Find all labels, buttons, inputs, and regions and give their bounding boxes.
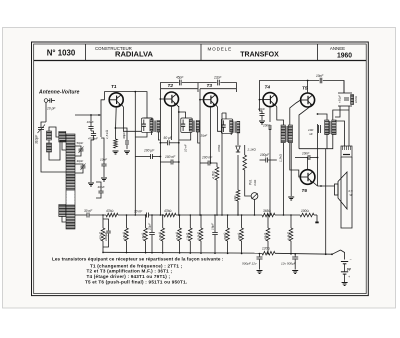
resistor 47k rail1	[106, 213, 118, 217]
capacitor 45pF	[179, 80, 181, 86]
wire T3 collector	[215, 104, 222, 131]
svg-text:−: −	[350, 258, 352, 262]
resistor 47kohm vertical x268	[263, 215, 269, 253]
wire T1 base down	[101, 100, 105, 137]
transistor T3	[204, 83, 218, 107]
resistor 4,7k mid	[215, 167, 219, 180]
svg-text:10pF: 10pF	[258, 107, 265, 111]
svg-text:30 nF: 30 nF	[134, 210, 143, 214]
svg-text:30 nF: 30 nF	[84, 209, 93, 213]
header separators	[85, 44, 87, 61]
svg-text:100 nF: 100 nF	[165, 155, 176, 159]
resistor 8,2kohm vertical x201	[196, 215, 202, 253]
svg-text:4,7kΩ: 4,7kΩ	[175, 231, 179, 240]
svg-text:Les transistors équipant ce ré: Les transistors équipant ce récepteur se…	[52, 257, 224, 262]
wire T4 collector	[275, 104, 284, 125]
svg-text:30pF: 30pF	[201, 134, 208, 138]
wire vertical bus D	[199, 89, 201, 215]
svg-text:T4: T4	[265, 85, 271, 91]
IFT2 core	[193, 121, 195, 133]
resistor 47kohm vertical x241.6	[237, 215, 243, 253]
svg-text:47kΩ: 47kΩ	[106, 209, 114, 213]
svg-text:Antenne-Voiture: Antenne-Voiture	[38, 90, 80, 96]
tuning capacitor 310pF	[38, 122, 47, 148]
transistor T6	[300, 170, 315, 194]
wire pot	[245, 192, 251, 196]
resistor 1,5k emitter	[114, 139, 118, 148]
svg-text:T6: T6	[302, 188, 308, 194]
capacitor 500uF x295.2	[292, 253, 298, 273]
resistor 100 rail3	[300, 213, 314, 217]
ground battery	[342, 282, 348, 284]
svg-text:Pot.: Pot.	[249, 179, 253, 185]
IF transformer IFT1	[142, 118, 154, 132]
wire output top rail	[260, 81, 345, 105]
svg-text:47kΩ: 47kΩ	[164, 209, 172, 213]
output transformer cap	[317, 125, 319, 133]
ferrite antenna bar	[66, 134, 75, 229]
svg-text:6,8kΩ: 6,8kΩ	[286, 231, 290, 240]
svg-text:TRANSFOX: TRANSFOX	[240, 50, 279, 59]
antenna terminal	[44, 98, 55, 122]
antenna winding lower	[59, 205, 66, 217]
svg-text:T1: T1	[111, 84, 117, 90]
oscillator coil L1	[47, 131, 52, 140]
wire IFT2 primary	[179, 112, 186, 118]
svg-text:T2 et T3 (amplification M.F.): T2 et T3 (amplification M.F.) : 36T1 ;	[87, 269, 173, 274]
resistor 47 kohm vertical x103	[98, 215, 104, 253]
transistor T2	[165, 83, 179, 106]
svg-text:100pF: 100pF	[104, 232, 108, 241]
wire T1 emitter	[115, 107, 118, 130]
IFT1 secondary	[157, 121, 160, 133]
wire vertical bus B	[159, 92, 161, 215]
svg-text:10nF: 10nF	[302, 152, 310, 156]
wire osc coils	[41, 127, 66, 172]
svg-text:30pF: 30pF	[122, 131, 126, 139]
capacitor 4700pF osc	[91, 133, 96, 135]
capacitor 30pF emitter	[125, 140, 127, 145]
capacitor 16uF vertical x215	[210, 215, 217, 253]
wire osc tap	[75, 114, 101, 116]
speaker transformer box	[335, 110, 352, 157]
driver transformer secondary	[288, 125, 292, 143]
wire vertical bus A	[134, 92, 136, 215]
svg-text:50pF: 50pF	[77, 141, 84, 145]
resistor 4,7kohm vertical x179.6	[175, 215, 181, 253]
IF transformer IFT2	[181, 118, 193, 133]
wire vertical bus F	[237, 133, 239, 145]
svg-text:+: +	[348, 275, 350, 279]
wire T6 left vertical	[290, 143, 292, 196]
wire T4 emitter	[269, 107, 271, 122]
svg-text:3 kΩ: 3 kΩ	[253, 179, 257, 186]
svg-text:47kΩ: 47kΩ	[237, 232, 241, 240]
svg-text:T4 (étage driver) : 943T1 ou: T4 (étage driver) : 943T1 ou 79T1) ;	[87, 274, 171, 279]
ground base cap	[101, 177, 107, 179]
svg-text:47kΩ: 47kΩ	[263, 232, 267, 240]
decoupling +50uF	[335, 81, 354, 118]
svg-text:N° 1030: N° 1030	[47, 49, 76, 58]
resistor 1k	[233, 190, 240, 215]
svg-text:22pF: 22pF	[213, 76, 222, 80]
svg-text:ANNEE: ANNEE	[330, 46, 345, 51]
junction dots rails	[102, 214, 296, 254]
wire driver secondary top to T5 base	[290, 100, 301, 125]
svg-text:45pF: 45pF	[176, 76, 184, 80]
wire T2 emitter	[171, 106, 173, 140]
volume potentiometer	[251, 193, 258, 200]
svg-text:100Ω: 100Ω	[301, 209, 309, 213]
svg-text:30pF: 30pF	[77, 159, 84, 163]
wire IFT2 secondary to T3	[198, 132, 200, 143]
svg-text:310pF: 310pF	[35, 134, 39, 144]
capacitor 22uF vertical x152	[147, 215, 154, 253]
wire T3 base	[200, 99, 204, 101]
svg-text:470Ω: 470Ω	[217, 144, 221, 152]
diode detector	[236, 146, 240, 152]
IFT2 secondary	[196, 121, 199, 133]
svg-text:5,6kΩ: 5,6kΩ	[158, 231, 162, 240]
svg-text:100μF: 100μF	[260, 153, 270, 157]
output transformer secondary w	[332, 120, 336, 135]
wire output transformer	[299, 110, 349, 149]
IFT1 core	[153, 121, 155, 133]
capacitor 30nF rail	[86, 213, 88, 218]
capacitor 22pF	[217, 80, 219, 86]
svg-text:RADIALVA: RADIALVA	[115, 50, 154, 59]
speaker enclosure	[341, 157, 352, 228]
wire IFT3 top	[222, 113, 226, 119]
chassis tab	[315, 222, 318, 224]
wire T1 collector	[121, 104, 141, 131]
svg-text:4,7kΩ: 4,7kΩ	[212, 170, 216, 179]
capacitor 100pF agc	[103, 219, 111, 247]
svg-text:22μF: 22μF	[147, 222, 151, 231]
wire IFT1 secondary to T2 base	[158, 132, 160, 140]
svg-text:4700pF: 4700pF	[88, 137, 98, 141]
svg-text:470Ω: 470Ω	[223, 232, 227, 240]
svg-text:100Ω: 100Ω	[354, 96, 358, 103]
svg-text:1,5 kΩ: 1,5 kΩ	[105, 129, 109, 139]
resistor 2,2k	[243, 155, 247, 170]
resistor 470ohm vertical x227.6	[223, 215, 229, 253]
svg-text:MODELE: MODELE	[208, 47, 233, 52]
driver transformer core	[285, 126, 287, 142]
wire output cap vertical	[317, 124, 319, 186]
svg-text:10nF: 10nF	[316, 74, 324, 78]
svg-text:+50μF: +50μF	[338, 95, 342, 103]
svg-text:2,1kΩ: 2,1kΩ	[247, 148, 257, 152]
resistor 47k rail2	[164, 213, 176, 217]
wire T5 emitter up	[307, 81, 309, 94]
resistor 15kohm vertical x145.6	[141, 215, 147, 253]
wire driver secondary bottom to T6 base	[290, 143, 301, 177]
svg-text:12kΩ: 12kΩ	[186, 232, 190, 240]
wire IFT1 primary bottom	[135, 132, 147, 137]
transistor T4	[263, 85, 277, 107]
svg-text:500μF 12v: 500μF 12v	[242, 262, 257, 266]
IFT3 secondary	[237, 121, 240, 132]
svg-text:10nF: 10nF	[263, 124, 271, 128]
wire T6 collector	[313, 182, 318, 186]
header rule	[34, 60, 367, 62]
wire vertical bus C	[178, 106, 180, 215]
battery 9V	[341, 262, 348, 283]
resistor 6,8kohm vertical x291	[286, 215, 292, 253]
wire T6 emitter up	[307, 158, 309, 170]
outer frame	[32, 42, 369, 296]
svg-text:10nF: 10nF	[87, 120, 95, 124]
svg-text:10 nF: 10 nF	[184, 144, 188, 152]
svg-text:50 μF: 50 μF	[164, 136, 173, 140]
svg-text:2,5kΩ: 2,5kΩ	[122, 231, 126, 241]
speaker	[318, 172, 348, 209]
wire neutralization top loop	[160, 83, 236, 92]
svg-text:1,2kΩ: 1,2kΩ	[279, 153, 283, 162]
capacitor 500uF x259.5	[257, 253, 263, 273]
ground osc	[88, 182, 94, 184]
output transformer primary	[325, 120, 329, 135]
wire above T3	[200, 88, 236, 90]
svg-text:12v 500μF: 12v 500μF	[281, 262, 297, 266]
inner frame	[34, 44, 367, 294]
transistor T5	[301, 86, 315, 108]
resistor 365 rail4	[262, 213, 275, 217]
capacitor 30nF rail second	[146, 213, 148, 218]
svg-text:16μF: 16μF	[210, 222, 214, 230]
oscillator coil L2	[47, 143, 52, 152]
svg-text:100 μF: 100 μF	[144, 149, 155, 153]
wire AGC rail	[75, 215, 317, 222]
wire T1 top feed	[105, 92, 148, 118]
wire output return vertical	[325, 149, 327, 255]
wire T2 base	[160, 98, 164, 100]
IF transformer IFT3	[221, 119, 233, 133]
svg-text:15kΩ: 15kΩ	[141, 232, 145, 240]
wire bottom rail	[103, 252, 332, 254]
resistor 12kohm vertical x190.3	[186, 215, 192, 253]
svg-text:T1 (changement de fréquence): T1 (changement de fréquence) : 2TT1 ;	[90, 263, 183, 268]
antenna winding upper	[59, 132, 66, 143]
wire above T2	[161, 88, 198, 90]
svg-text:10 pF: 10 pF	[47, 107, 56, 111]
wire driver primary bottom	[283, 143, 285, 215]
wire T3 emitter	[210, 107, 212, 163]
resistor 5,6kohm vertical x162.7	[158, 215, 164, 253]
svg-text:8,2kΩ: 8,2kΩ	[196, 231, 200, 240]
switch	[325, 253, 327, 255]
IFT3 core	[233, 121, 235, 132]
driver transformer primary	[281, 125, 285, 143]
wire T2 collector	[176, 104, 178, 107]
wire vertical bus E	[221, 133, 223, 215]
svg-text:40pF: 40pF	[98, 185, 106, 189]
svg-text:120Ω: 120Ω	[262, 247, 270, 251]
svg-text:365Ω: 365Ω	[263, 209, 271, 213]
svg-text:1kΩ: 1kΩ	[233, 195, 237, 201]
resistor 2,5kohm vertical x126.5	[122, 215, 128, 253]
transistor T1	[109, 84, 123, 107]
svg-text:100 nF: 100 nF	[202, 156, 213, 160]
wire T5 collector down	[299, 106, 311, 148]
svg-text:T5: T5	[302, 86, 308, 92]
svg-text:47 kΩ: 47 kΩ	[98, 231, 102, 240]
wire T4 base	[260, 99, 264, 101]
capacitor 10nF rail	[319, 78, 321, 84]
output transformer core	[329, 121, 331, 134]
svg-text:T5 et T6 (push-pull final) :: T5 et T6 (push-pull final) : 951T1 ou 95…	[85, 279, 187, 284]
svg-text:1960: 1960	[337, 53, 352, 60]
resistor 120 bottom	[262, 251, 275, 255]
